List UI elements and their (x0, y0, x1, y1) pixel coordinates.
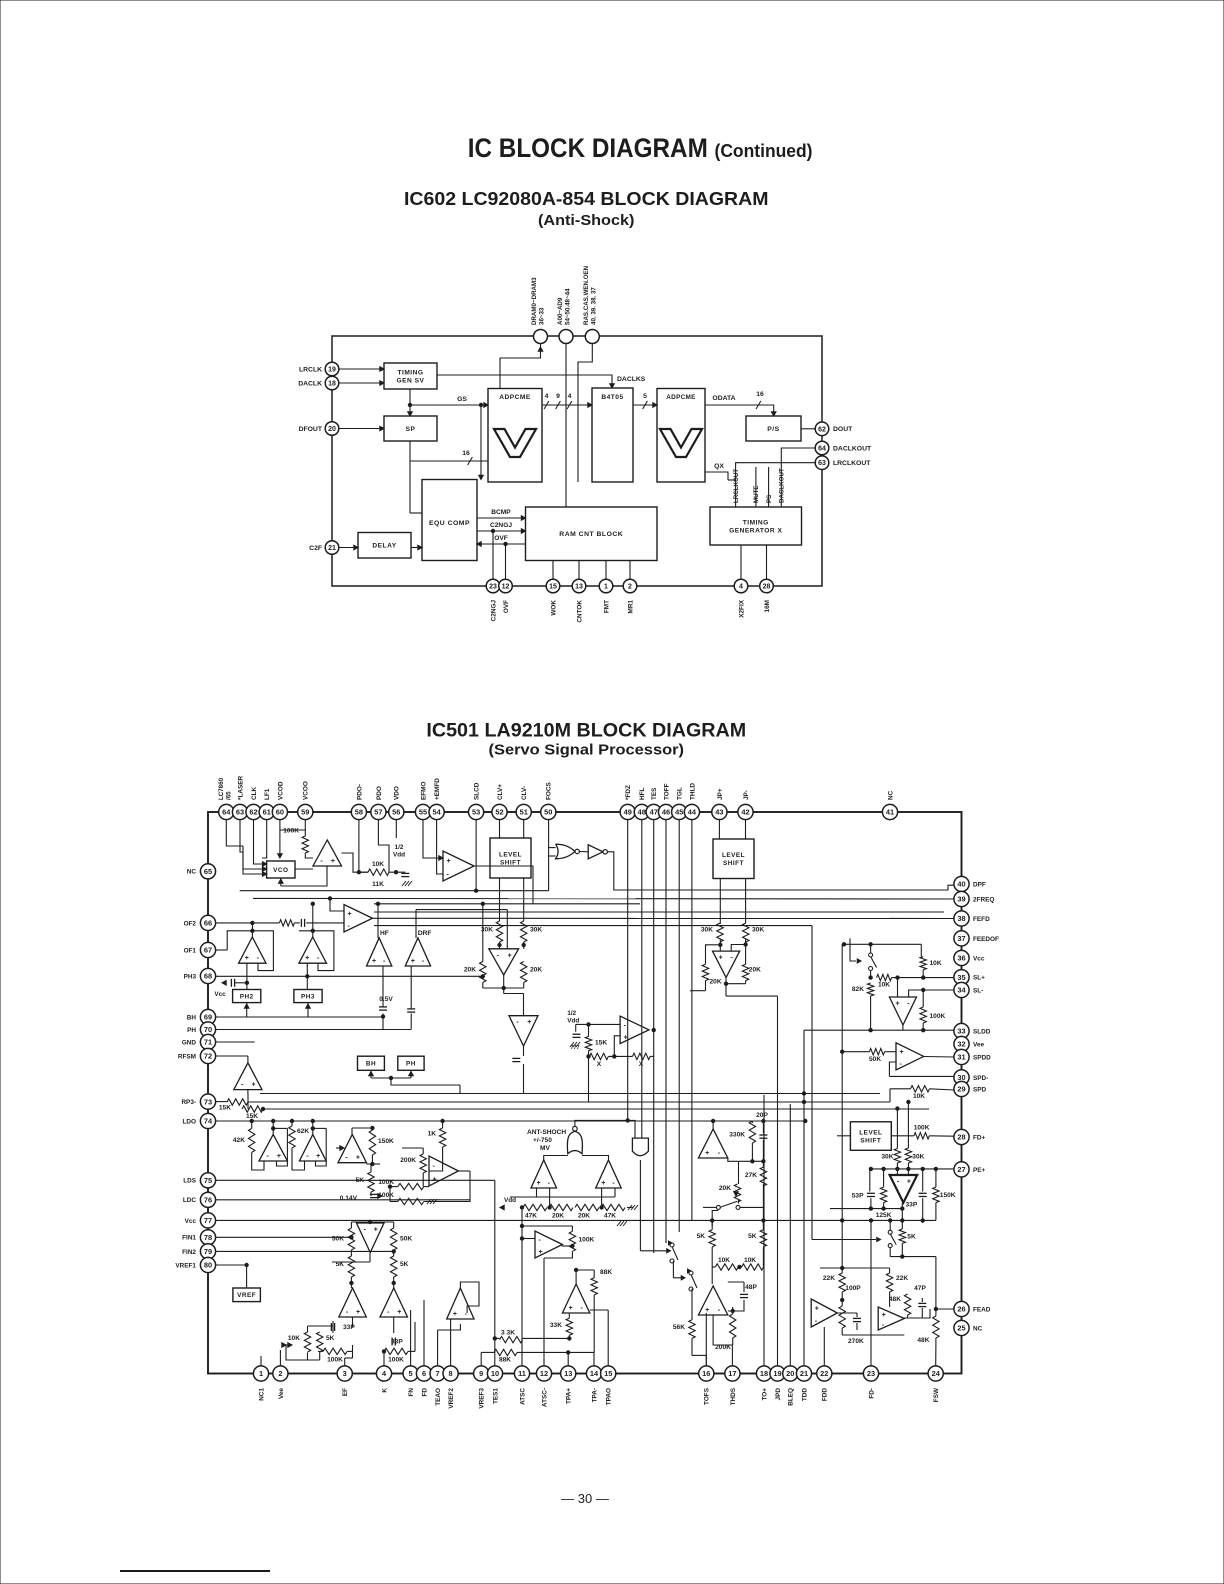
svg-text:+: + (251, 1082, 255, 1089)
svg-text:35: 35 (957, 973, 965, 982)
svg-text:10K: 10K (744, 1257, 756, 1264)
svg-text:DACLKOUT: DACLKOUT (779, 468, 786, 503)
svg-text:80: 80 (204, 1261, 212, 1270)
svg-text:42K: 42K (233, 1137, 245, 1144)
svg-text:62: 62 (818, 426, 826, 433)
svg-text:X: X (597, 1061, 602, 1068)
svg-text:ATSC: ATSC (519, 1388, 526, 1405)
svg-text:27: 27 (957, 1165, 965, 1174)
svg-text:17: 17 (728, 1369, 736, 1378)
svg-text:TPA+: TPA+ (566, 1388, 573, 1404)
svg-text:13: 13 (575, 584, 583, 591)
svg-text:77: 77 (204, 1216, 212, 1225)
svg-text:CLV-: CLV- (521, 786, 528, 800)
svg-text:20: 20 (328, 426, 336, 433)
svg-text:DELAY: DELAY (372, 543, 396, 550)
svg-text:+: + (356, 1155, 360, 1162)
svg-text:20K: 20K (710, 979, 722, 986)
svg-text:JP+: JP+ (717, 788, 724, 800)
svg-text:100K: 100K (930, 1013, 946, 1020)
svg-text:48K: 48K (889, 1296, 901, 1303)
svg-text:C2F: C2F (309, 545, 322, 552)
svg-text:SP: SP (406, 426, 416, 433)
svg-text:LRCLK: LRCLK (299, 366, 322, 373)
svg-text:SHIFT: SHIFT (723, 860, 744, 867)
svg-text:DFOUT: DFOUT (299, 426, 323, 433)
svg-text:+/-750: +/-750 (533, 1137, 552, 1144)
svg-text:22K: 22K (823, 1275, 835, 1282)
svg-text:16: 16 (702, 1369, 710, 1378)
svg-text:HF: HF (380, 930, 389, 937)
svg-text:THLD: THLD (689, 783, 696, 800)
svg-text:57: 57 (374, 808, 382, 817)
svg-text:36~33: 36~33 (539, 307, 546, 325)
svg-text:47P: 47P (914, 1285, 926, 1292)
svg-text:+: + (569, 1305, 573, 1312)
svg-text:C2NGJ: C2NGJ (490, 522, 512, 529)
svg-text:3: 3 (343, 1369, 347, 1378)
svg-text:VREF: VREF (237, 1292, 256, 1299)
svg-text:68: 68 (204, 972, 212, 981)
svg-text:58: 58 (355, 808, 363, 817)
svg-text:4: 4 (568, 393, 572, 400)
svg-text:33: 33 (957, 1027, 965, 1036)
svg-text:OVF: OVF (494, 535, 508, 542)
svg-text:54: 54 (432, 808, 441, 817)
svg-text:15K: 15K (219, 1105, 231, 1112)
svg-text:+: + (601, 1180, 605, 1187)
svg-text:27K: 27K (745, 1172, 757, 1179)
svg-text:42: 42 (741, 808, 749, 817)
svg-text:4: 4 (545, 393, 549, 400)
svg-text:12: 12 (502, 584, 510, 591)
svg-text:GS: GS (457, 396, 467, 403)
svg-text:28: 28 (957, 1133, 965, 1142)
svg-text:RP3-: RP3- (181, 1099, 196, 1106)
svg-text:43: 43 (715, 808, 723, 817)
svg-text:26: 26 (957, 1305, 965, 1314)
svg-text:56K: 56K (673, 1324, 685, 1331)
svg-text:ADPCME: ADPCME (666, 394, 696, 401)
svg-text:SPD: SPD (973, 1086, 987, 1093)
svg-text:+: + (539, 1249, 543, 1256)
svg-text:16: 16 (756, 391, 764, 398)
svg-text:0.14V: 0.14V (340, 1195, 358, 1202)
svg-text:+: + (537, 1180, 541, 1187)
svg-text:+: + (316, 1153, 320, 1160)
svg-text:+: + (508, 952, 512, 959)
svg-text:72: 72 (204, 1052, 212, 1061)
svg-text:BLEQ: BLEQ (788, 1388, 795, 1406)
svg-text:+: + (895, 1001, 899, 1008)
svg-text:FN: FN (408, 1388, 415, 1397)
svg-text:79: 79 (204, 1247, 212, 1256)
svg-text:Vdd: Vdd (567, 1018, 579, 1025)
svg-text:VCOO: VCOO (303, 781, 310, 800)
svg-text:59: 59 (301, 808, 309, 817)
svg-text:TPA-: TPA- (591, 1388, 598, 1402)
svg-text:QX: QX (714, 463, 724, 470)
svg-text:JP-: JP- (743, 790, 750, 800)
svg-text:Vcc: Vcc (973, 955, 985, 962)
svg-text:16: 16 (462, 450, 470, 457)
svg-text:47K: 47K (604, 1213, 616, 1220)
svg-text:BH: BH (187, 1014, 197, 1021)
svg-text:Vcc: Vcc (185, 1218, 197, 1225)
svg-text:DRAM0~DRAM3: DRAM0~DRAM3 (531, 277, 538, 325)
svg-text:67: 67 (204, 946, 212, 955)
svg-text:15: 15 (549, 584, 557, 591)
svg-text:63: 63 (818, 460, 826, 467)
svg-text:SLDD: SLDD (973, 1028, 991, 1035)
svg-text:47: 47 (650, 808, 658, 817)
svg-text:JPD: JPD (775, 1388, 782, 1401)
svg-text:IC501 LA9210M BLOCK DIAGRAM: IC501 LA9210M BLOCK DIAGRAM (426, 719, 746, 741)
svg-text:36: 36 (957, 954, 965, 963)
svg-text:PH3: PH3 (301, 993, 315, 1000)
svg-text:NC: NC (973, 1325, 983, 1332)
svg-text:DACLKS: DACLKS (617, 376, 646, 383)
svg-text:SHIFT: SHIFT (860, 1137, 881, 1144)
svg-text:THDS: THDS (730, 1387, 737, 1405)
svg-text:+EMFD: +EMFD (434, 778, 441, 800)
svg-text:LEVEL: LEVEL (499, 851, 522, 858)
svg-text:WOK: WOK (550, 600, 557, 616)
svg-text:*LASER: *LASER (237, 775, 244, 800)
svg-text:+: + (374, 1227, 378, 1234)
svg-text:1/2: 1/2 (395, 844, 404, 851)
svg-text:63: 63 (236, 808, 244, 817)
svg-text:VCO: VCO (273, 867, 288, 874)
svg-text:16M: 16M (764, 600, 771, 612)
svg-text:64: 64 (222, 808, 231, 817)
svg-text:1/2: 1/2 (567, 1010, 576, 1017)
svg-text:FD: FD (421, 1388, 428, 1397)
svg-text:53: 53 (472, 808, 480, 817)
svg-text:TES1: TES1 (492, 1388, 499, 1404)
svg-text:82K: 82K (852, 986, 864, 993)
svg-text:20K: 20K (530, 967, 542, 974)
svg-text:14: 14 (590, 1369, 599, 1378)
svg-text:FD+: FD+ (973, 1134, 986, 1141)
svg-text:MUTE: MUTE (753, 485, 760, 503)
svg-text:777: 777 (571, 1045, 580, 1051)
svg-text:24: 24 (932, 1369, 941, 1378)
svg-text:19: 19 (328, 367, 336, 374)
svg-text:FEFD: FEFD (973, 916, 990, 923)
svg-text:IC602 LC92080A-854 BLOCK DIAGR: IC602 LC92080A-854 BLOCK DIAGRAM (404, 188, 769, 209)
svg-text:8: 8 (449, 1369, 453, 1378)
svg-text:TIMING: TIMING (397, 369, 423, 376)
svg-text:+: + (900, 1049, 904, 1056)
svg-text:+: + (907, 1179, 911, 1186)
svg-text:45: 45 (675, 808, 683, 817)
svg-text:15: 15 (604, 1369, 612, 1378)
svg-text:P/S: P/S (767, 426, 779, 433)
svg-text:DACLK: DACLK (298, 380, 322, 387)
svg-text:FIN2: FIN2 (182, 1249, 196, 1256)
svg-text:+: + (331, 858, 335, 865)
svg-text:18: 18 (328, 381, 336, 388)
svg-text:SHIFT: SHIFT (500, 859, 521, 866)
svg-text:FMT: FMT (603, 600, 610, 613)
svg-text:RAS.CAS.WEN.OEN: RAS.CAS.WEN.OEN (583, 265, 590, 325)
svg-text:DRF: DRF (418, 930, 432, 937)
svg-text:50K: 50K (400, 1236, 412, 1243)
svg-text:TIMING: TIMING (743, 519, 769, 526)
svg-text:5K: 5K (326, 1335, 335, 1342)
svg-text:MV: MV (540, 1145, 550, 1152)
svg-text:23: 23 (489, 584, 497, 591)
svg-text:46: 46 (662, 808, 670, 817)
svg-text:BH: BH (366, 1061, 376, 1068)
svg-text:10K: 10K (718, 1257, 730, 1264)
svg-text:50K: 50K (869, 1056, 881, 1063)
svg-text:15K: 15K (595, 1040, 607, 1047)
svg-text:PDO: PDO (376, 786, 383, 800)
svg-text:3 3K: 3 3K (501, 1330, 515, 1337)
svg-text:CLV+: CLV+ (497, 784, 504, 800)
svg-text:50K: 50K (332, 1236, 344, 1243)
svg-text:75: 75 (204, 1176, 212, 1185)
svg-text:6: 6 (422, 1369, 426, 1378)
svg-text:+: + (305, 955, 309, 962)
svg-text:— 30 —: — 30 — (561, 1491, 609, 1506)
svg-text:61: 61 (263, 808, 271, 817)
svg-text:/65: /65 (225, 791, 232, 800)
svg-text:31: 31 (957, 1053, 965, 1062)
svg-text:60: 60 (276, 808, 284, 817)
svg-text:OVF: OVF (503, 600, 510, 613)
svg-text:200K: 200K (400, 1157, 416, 1164)
svg-text:1: 1 (604, 584, 608, 591)
svg-text:NC: NC (887, 790, 894, 800)
svg-text:BCMP: BCMP (491, 509, 511, 516)
svg-text:51: 51 (520, 808, 528, 817)
svg-text:39: 39 (957, 895, 965, 904)
svg-text:11: 11 (518, 1369, 526, 1378)
svg-text:65: 65 (204, 867, 212, 876)
svg-text:X2FIX: X2FIX (738, 599, 745, 617)
svg-text:5K: 5K (400, 1261, 409, 1268)
svg-text:Vdd: Vdd (393, 852, 405, 859)
svg-text:100K: 100K (388, 1357, 404, 1364)
svg-text:+: + (356, 1309, 360, 1316)
svg-text:FDD: FDD (822, 1388, 829, 1402)
svg-text:62K: 62K (297, 1128, 309, 1135)
svg-text:25: 25 (957, 1324, 965, 1333)
svg-text:5K: 5K (697, 1233, 706, 1240)
svg-text:SL-: SL- (973, 987, 983, 994)
svg-text:150K: 150K (378, 1138, 394, 1145)
svg-text:10K: 10K (288, 1335, 300, 1342)
svg-text:69: 69 (204, 1013, 212, 1022)
svg-text:+: + (705, 1150, 709, 1157)
svg-text:12: 12 (540, 1369, 548, 1378)
svg-text:LC7860: LC7860 (218, 777, 225, 800)
svg-text:LDS: LDS (183, 1178, 197, 1185)
svg-text:DPF: DPF (973, 881, 986, 888)
svg-text:23: 23 (867, 1369, 875, 1378)
svg-text:54~50.48~44: 54~50.48~44 (565, 288, 572, 325)
svg-text:66: 66 (204, 919, 212, 928)
svg-text:9: 9 (556, 393, 560, 400)
svg-text:PH3: PH3 (184, 973, 197, 980)
svg-text:10K: 10K (913, 1093, 925, 1100)
svg-text:100P: 100P (845, 1285, 861, 1292)
svg-text:LRCLKOUT: LRCLKOUT (833, 460, 871, 467)
svg-text:+: + (348, 911, 352, 918)
svg-text:TO+: TO+ (761, 1388, 768, 1401)
svg-text:70: 70 (204, 1025, 212, 1034)
svg-text:20: 20 (786, 1369, 794, 1378)
svg-text:FEEDOF: FEEDOF (973, 936, 999, 943)
svg-text:TGL: TGL (677, 787, 684, 800)
svg-text:LEVEL: LEVEL (859, 1129, 882, 1136)
svg-text:0.5V: 0.5V (379, 996, 393, 1003)
svg-text:30K: 30K (912, 1153, 924, 1160)
svg-text:TOFF: TOFF (663, 783, 670, 800)
svg-text:FSW: FSW (933, 1387, 940, 1402)
svg-text:56: 56 (392, 808, 400, 817)
svg-text:5: 5 (643, 393, 647, 400)
svg-text:+: + (411, 958, 415, 965)
svg-text:+: + (447, 858, 451, 865)
svg-text:71: 71 (204, 1038, 212, 1047)
svg-text:GENERATOR X: GENERATOR X (729, 527, 782, 534)
svg-text:1K: 1K (428, 1131, 437, 1138)
svg-text:40: 40 (957, 880, 965, 889)
svg-text:33P: 33P (906, 1202, 918, 1209)
svg-text:2FREQ: 2FREQ (973, 896, 994, 903)
svg-text:LEVEL: LEVEL (722, 852, 745, 859)
svg-text:34: 34 (957, 986, 966, 995)
svg-text:FD-: FD- (868, 1388, 875, 1399)
svg-text:40. 39. 38. 37: 40. 39. 38. 37 (591, 287, 598, 325)
svg-text:(Continued): (Continued) (715, 140, 813, 161)
svg-text:Vee: Vee (278, 1388, 285, 1399)
svg-text:49: 49 (624, 808, 632, 817)
svg-text:PDO-: PDO- (356, 784, 363, 800)
svg-text:33P: 33P (391, 1339, 403, 1346)
svg-text:VREF1: VREF1 (175, 1262, 196, 1269)
svg-text:125K: 125K (876, 1212, 892, 1219)
svg-text:32: 32 (957, 1040, 965, 1049)
svg-text:10K: 10K (372, 861, 384, 868)
svg-text:5K: 5K (907, 1234, 916, 1241)
svg-text:22: 22 (820, 1369, 828, 1378)
svg-text:20P: 20P (756, 1112, 768, 1119)
svg-text:GEN SV: GEN SV (397, 377, 425, 384)
svg-text:30K: 30K (752, 927, 764, 934)
svg-text:LF1: LF1 (264, 788, 271, 800)
svg-text:ATSC-: ATSC- (541, 1388, 548, 1407)
svg-text:100K: 100K (327, 1357, 343, 1364)
svg-text:88K: 88K (499, 1357, 511, 1364)
svg-text:100K: 100K (579, 1237, 595, 1244)
svg-text:PH: PH (406, 1061, 416, 1068)
svg-text:20K: 20K (578, 1213, 590, 1220)
svg-text:+: + (527, 1019, 531, 1026)
svg-text:30K: 30K (701, 927, 713, 934)
svg-text:55: 55 (419, 808, 427, 817)
svg-text:270K: 270K (848, 1338, 864, 1345)
svg-text:TPAO: TPAO (606, 1388, 613, 1405)
svg-text:SPD-: SPD- (973, 1075, 988, 1082)
svg-text:LDO: LDO (183, 1118, 197, 1125)
svg-text:LDC: LDC (183, 1197, 197, 1204)
svg-text:EFMO: EFMO (420, 782, 427, 800)
svg-text:OF2: OF2 (184, 920, 197, 927)
svg-text:+: + (815, 1305, 819, 1312)
svg-text:150K: 150K (940, 1192, 956, 1199)
svg-text:C2NGJ: C2NGJ (490, 600, 497, 622)
svg-text:(Anti-Shock): (Anti-Shock) (538, 213, 635, 229)
svg-text:7: 7 (436, 1369, 440, 1378)
svg-text:LRCLKOUT: LRCLKOUT (733, 469, 740, 503)
svg-text:DACLKOUT: DACLKOUT (833, 445, 872, 452)
svg-text:+: + (245, 955, 249, 962)
svg-text:CNTOK: CNTOK (576, 600, 583, 623)
svg-text:+: + (624, 1035, 628, 1042)
svg-text:76: 76 (204, 1195, 212, 1204)
svg-text:A00~AD9: A00~AD9 (557, 297, 564, 325)
svg-text:100K: 100K (914, 1125, 930, 1132)
svg-text:19: 19 (773, 1369, 781, 1378)
svg-text:OF1: OF1 (184, 947, 197, 954)
svg-text:88K: 88K (600, 1269, 612, 1276)
svg-text:Vdd: Vdd (504, 1197, 516, 1204)
svg-text:4: 4 (739, 584, 743, 591)
svg-text:2: 2 (628, 584, 632, 591)
svg-text:DOUT: DOUT (833, 426, 853, 433)
svg-text:FIN1: FIN1 (182, 1235, 196, 1242)
svg-text:PH: PH (187, 1027, 196, 1034)
svg-text:TEAO: TEAO (435, 1388, 442, 1406)
svg-text:PH2: PH2 (240, 993, 254, 1000)
svg-text:29: 29 (957, 1085, 965, 1094)
svg-text:K: K (381, 1388, 388, 1393)
svg-text:5: 5 (409, 1369, 413, 1378)
svg-text:+: + (719, 955, 723, 962)
svg-text:EF: EF (342, 1388, 349, 1396)
svg-text:Vcc: Vcc (214, 991, 226, 998)
svg-text:100K: 100K (283, 828, 299, 835)
svg-text:+: + (372, 958, 376, 965)
svg-text:52: 52 (495, 808, 503, 817)
svg-text:VREF2: VREF2 (448, 1388, 455, 1409)
svg-text:HFL: HFL (639, 787, 646, 800)
svg-text:SPDD: SPDD (973, 1054, 991, 1061)
svg-text:20K: 20K (464, 967, 476, 974)
svg-text:30K: 30K (530, 927, 542, 934)
svg-text:ADPCME: ADPCME (499, 394, 531, 401)
svg-text:10K: 10K (878, 982, 890, 989)
svg-text:+: + (397, 1309, 401, 1316)
svg-text:48P: 48P (745, 1284, 757, 1291)
svg-text:+: + (453, 1311, 457, 1318)
svg-text:MR1: MR1 (627, 600, 634, 614)
svg-text:22K: 22K (896, 1275, 908, 1282)
svg-text:37: 37 (957, 934, 965, 943)
svg-text:+: + (882, 1312, 886, 1319)
svg-text:10: 10 (491, 1369, 499, 1378)
svg-text:VCOD: VCOD (277, 781, 284, 800)
svg-text:EQU COMP: EQU COMP (429, 520, 470, 527)
svg-text:IC BLOCK DIAGRAM: IC BLOCK DIAGRAM (468, 133, 708, 163)
svg-text:74: 74 (204, 1117, 213, 1126)
svg-text:28: 28 (763, 584, 771, 591)
